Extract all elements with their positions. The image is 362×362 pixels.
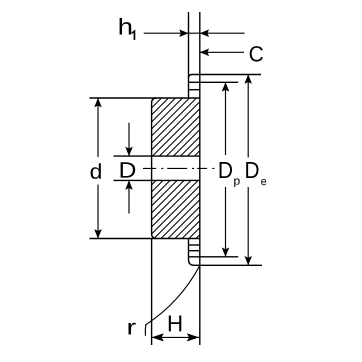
De up arrow top xyxy=(244,75,252,84)
tooth rim top edge / De reference line xyxy=(189,75,262,79)
De label D xyxy=(246,162,258,178)
centerline xyxy=(143,167,214,169)
D bore label xyxy=(121,162,136,177)
H right arrow xyxy=(187,333,199,341)
bore top line with D extension xyxy=(114,155,200,157)
d dimension line xyxy=(97,98,99,239)
tooth strip left vertical (top) xyxy=(188,12,190,98)
h1 subscript 1 xyxy=(132,30,136,40)
Dp dimension line xyxy=(225,82,227,256)
bore bottom line with D extension xyxy=(114,179,200,181)
h1 left-pointing arrow xyxy=(200,29,209,37)
D up arrow at bore bottom xyxy=(125,180,133,189)
Dp label D xyxy=(220,162,232,178)
D down arrow at bore top xyxy=(125,147,133,156)
Dp subscript p xyxy=(234,178,240,187)
d label xyxy=(91,163,101,179)
H label xyxy=(169,316,182,332)
hatching of hub cross-section xyxy=(140,43,210,302)
r label xyxy=(128,323,135,335)
tooth band line top inner xyxy=(189,89,200,91)
h1 dimension line xyxy=(144,32,245,34)
d down arrow bottom xyxy=(94,229,102,238)
tooth strip left vertical (bottom) xyxy=(188,239,190,260)
De dimension line xyxy=(247,75,249,266)
C label xyxy=(250,46,263,62)
tooth band line bottom 1 xyxy=(189,244,200,246)
Dp down arrow bottom xyxy=(222,248,230,257)
tooth bottom edge / De bottom reference line xyxy=(189,260,263,266)
Dp up arrow top xyxy=(222,82,230,91)
H dimension line xyxy=(152,336,199,338)
dimension lines xyxy=(98,33,248,337)
C dimension line xyxy=(200,51,244,53)
hub top line with d extension xyxy=(89,97,199,99)
De subscript e xyxy=(261,179,266,185)
hub left face extension down to H dimension xyxy=(151,239,153,346)
d up arrow top xyxy=(94,98,102,107)
C left-pointing arrow xyxy=(200,49,209,57)
h1 label h xyxy=(120,18,132,35)
arrowheads xyxy=(94,29,252,341)
tooth band line / Dp top reference xyxy=(189,81,239,83)
sprocket right face vertical xyxy=(199,12,201,345)
r leader tick xyxy=(144,324,147,336)
tooth band line / Dp bottom reference xyxy=(189,256,239,258)
hub left face with rounded corners xyxy=(152,98,157,239)
H left arrow xyxy=(152,333,164,341)
D dimension line xyxy=(128,123,130,214)
hub bottom line with d extension xyxy=(89,238,199,240)
De down arrow bottom xyxy=(244,256,252,265)
h1 right-pointing arrow xyxy=(179,29,188,37)
tooth flank radius arc r xyxy=(146,266,200,325)
tooth band line bottom 2 xyxy=(189,250,200,252)
